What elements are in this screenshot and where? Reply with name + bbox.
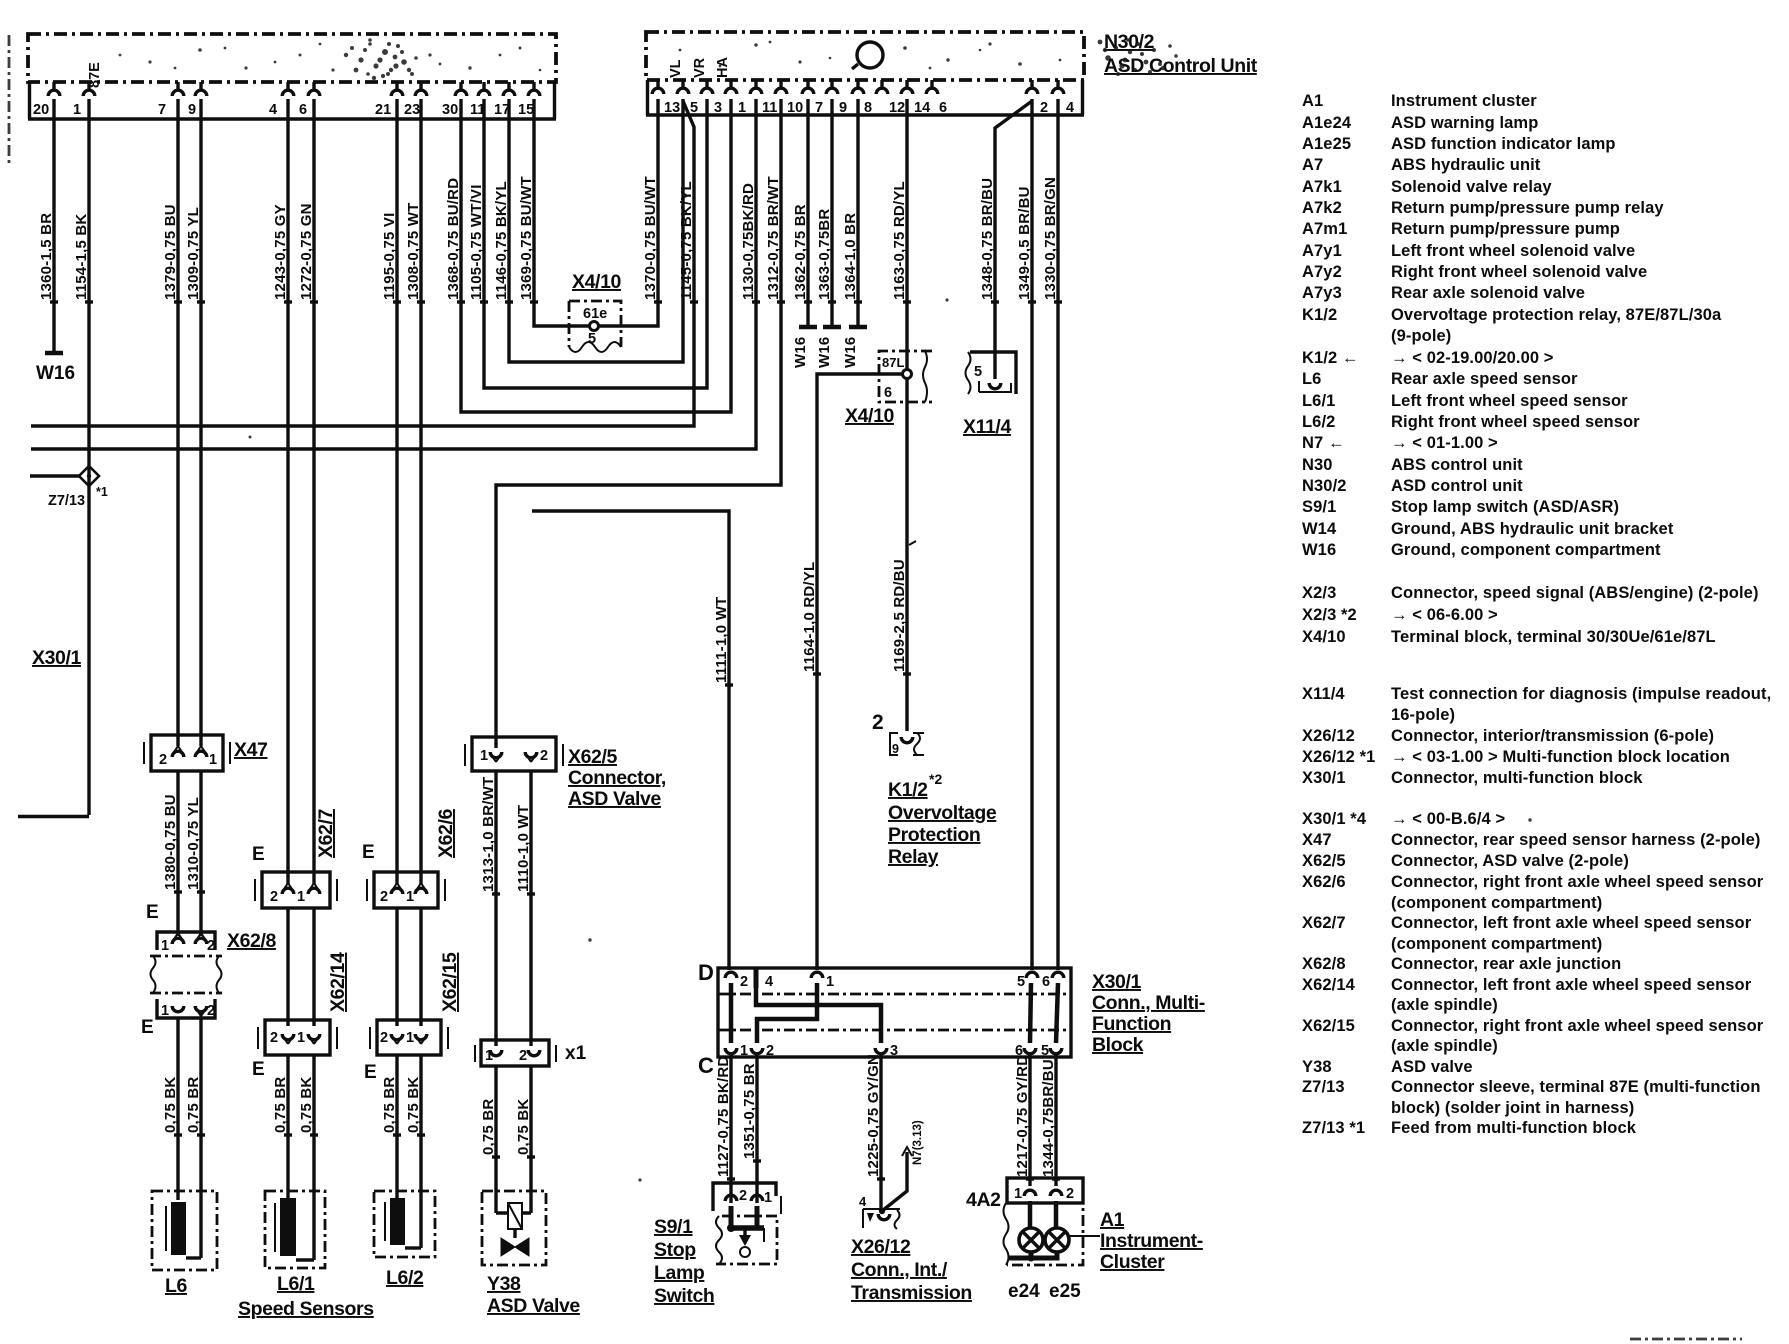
svg-text:Connector, left front axle whe: Connector, left front axle wheel speed s… xyxy=(1391,976,1752,994)
svg-text:0,75 BR: 0,75 BR xyxy=(272,1077,289,1133)
svg-text:ABS control unit: ABS control unit xyxy=(1391,456,1523,474)
wire 1348-0,75 BR/BU N30/2 pin2 to X11/4 xyxy=(979,101,1032,379)
connector x1 xyxy=(475,1040,587,1066)
ABS control unit N30 (top-left box) xyxy=(28,34,556,119)
wire 0,75 BK X62/15 to L6/2 xyxy=(405,1055,425,1248)
wire 1308-0,75 WT pin23 to X62/6 xyxy=(405,99,425,884)
svg-text:Connector, right front axle wh: Connector, right front axle wheel speed … xyxy=(1391,1017,1764,1035)
wire 1145-0,75 BK/YL N30/2 pin5 to multifunction bus xyxy=(31,101,698,426)
svg-text:N30/2: N30/2 xyxy=(1302,477,1347,495)
svg-text:4: 4 xyxy=(859,1194,867,1209)
svg-text:Left front wheel speed sensor: Left front wheel speed sensor xyxy=(1391,392,1628,410)
svg-text:Speed Sensors: Speed Sensors xyxy=(238,1298,374,1320)
wire 0,75 BR x1 to Y38 xyxy=(480,1066,500,1213)
svg-text:8: 8 xyxy=(864,100,872,116)
svg-text:2: 2 xyxy=(380,1030,388,1046)
svg-text:Instrument cluster: Instrument cluster xyxy=(1391,92,1537,110)
svg-text:1308-0,75 WT: 1308-0,75 WT xyxy=(405,203,422,300)
svg-text:1380-0,75 BU: 1380-0,75 BU xyxy=(162,794,179,890)
wire 1380-0,75 BU X47 to X62/8 xyxy=(162,771,182,936)
connector X26/12 xyxy=(859,1120,924,1229)
svg-text:2: 2 xyxy=(739,1188,747,1204)
svg-text:1360-1,5 BR: 1360-1,5 BR xyxy=(38,213,55,300)
speed sensor L6 xyxy=(152,1191,217,1297)
X26/12 labels xyxy=(851,1236,972,1304)
wire 0,75 BK X62/14 to L6/1 xyxy=(298,1055,318,1260)
svg-text:Z7/13: Z7/13 xyxy=(1302,1078,1345,1096)
svg-text:1145-0,75 BK/YL: 1145-0,75 BK/YL xyxy=(678,181,695,300)
wire 1154-1,5 BK pin1 down to multi-function block stub xyxy=(18,99,93,817)
svg-text:6: 6 xyxy=(884,385,892,401)
svg-text:ASD function indicator lamp: ASD function indicator lamp xyxy=(1391,135,1616,153)
solder sleeve Z7/13 xyxy=(30,466,108,509)
svg-text:Connector, left front axle whe: Connector, left front axle wheel speed s… xyxy=(1391,914,1752,932)
svg-text:(component compartment): (component compartment) xyxy=(1391,935,1602,953)
terminal block X4/10 (61e) xyxy=(569,271,622,352)
svg-text:K1/2 ←: K1/2 ← xyxy=(1302,349,1359,367)
svg-text:X62/7: X62/7 xyxy=(1302,914,1346,932)
N30 pin 23 xyxy=(404,82,427,118)
wire 1330-0,75 BR/GN N30/2 pin4 to X30/1 pin6 xyxy=(1042,99,1062,970)
svg-text:E: E xyxy=(146,902,159,923)
svg-text:0,75 BK: 0,75 BK xyxy=(162,1077,179,1133)
photocopy noise speckles xyxy=(119,38,1532,1181)
N30 pin 4 xyxy=(269,82,294,118)
svg-text:10: 10 xyxy=(787,100,803,116)
N30/2 pin 11 xyxy=(750,80,777,116)
svg-text:Connector, rear axle junction: Connector, rear axle junction xyxy=(1391,955,1621,973)
speed sensor L6/1 xyxy=(265,1191,325,1295)
svg-text:1: 1 xyxy=(297,889,305,905)
svg-text:1310-0,75 YL: 1310-0,75 YL xyxy=(185,797,202,890)
svg-text:(axle spindle): (axle spindle) xyxy=(1391,996,1498,1014)
svg-text:A1: A1 xyxy=(1302,92,1323,110)
N30/2 pin 1 xyxy=(725,80,746,116)
svg-text:(axle spindle): (axle spindle) xyxy=(1391,1037,1498,1055)
K1/2 labels xyxy=(888,771,997,868)
svg-text:N7(3.13): N7(3.13) xyxy=(912,1120,924,1165)
svg-text:1: 1 xyxy=(485,1048,493,1064)
svg-text:1313-1,0 BR/WT: 1313-1,0 BR/WT xyxy=(480,777,497,892)
svg-text:W16: W16 xyxy=(36,363,75,384)
wire 1364-1,0 BR N30/2 pin8 to ground W16 xyxy=(842,99,862,327)
svg-text:Stop lamp switch (ASD/ASR): Stop lamp switch (ASD/ASR) xyxy=(1391,498,1619,516)
svg-text:2: 2 xyxy=(766,1043,774,1059)
svg-text:X26/12: X26/12 xyxy=(1302,727,1355,745)
ASD function indicator lamp e25 xyxy=(1045,1228,1069,1252)
node label VL xyxy=(668,59,684,78)
N30/2 pin 5 xyxy=(677,80,698,116)
svg-text:X30/1 *4: X30/1 *4 xyxy=(1302,810,1367,828)
wire X62/6 to X62/15 (right) xyxy=(419,908,422,1026)
N30 pin 11 xyxy=(470,82,490,118)
svg-text:Return pump/pressure pump rela: Return pump/pressure pump relay xyxy=(1391,199,1664,217)
N30/2 pin 13 xyxy=(652,80,680,116)
svg-text:E: E xyxy=(252,844,265,865)
svg-text:K1/2: K1/2 xyxy=(888,779,928,801)
svg-text:12: 12 xyxy=(889,100,905,116)
svg-text:A7y1: A7y1 xyxy=(1302,242,1342,260)
svg-text:Connector, ASD valve (2-pole): Connector, ASD valve (2-pole) xyxy=(1391,852,1629,870)
N30 pin 17 xyxy=(494,82,515,118)
N30/2 pin 12 (unconnected) xyxy=(876,80,905,116)
terminal 87E rotated label xyxy=(87,62,103,88)
pointer line to A1 label xyxy=(1069,1235,1100,1237)
svg-text:2: 2 xyxy=(380,889,388,905)
wire 0,75 BR X62/14 to L6/1 xyxy=(272,1055,292,1198)
svg-text:Stop: Stop xyxy=(654,1239,696,1261)
svg-text:1312-0,75 BR/WT: 1312-0,75 BR/WT xyxy=(765,176,782,300)
svg-text:A7k2: A7k2 xyxy=(1302,199,1342,217)
svg-text:L6: L6 xyxy=(1302,370,1321,388)
A1 labels xyxy=(1100,1209,1203,1273)
wire 1309-0,75 YL pin9 to X47 xyxy=(185,99,205,746)
svg-text:0,75 BR: 0,75 BR xyxy=(185,1077,202,1133)
svg-text:Transmission: Transmission xyxy=(851,1282,972,1304)
N30 pin 6 xyxy=(299,82,320,118)
svg-text:2: 2 xyxy=(1040,100,1048,116)
svg-text:1349-0,5 BR/BU: 1349-0,5 BR/BU xyxy=(1016,186,1033,300)
svg-text:X2/3 *2: X2/3 *2 xyxy=(1302,606,1357,624)
svg-text:1: 1 xyxy=(1014,1186,1022,1202)
svg-text:0,75 BR: 0,75 BR xyxy=(480,1099,497,1155)
connector X62/6 xyxy=(367,808,457,908)
N30/2 pin 6 (unconnected) xyxy=(926,80,947,116)
svg-text:1370-0,75 BU/WT: 1370-0,75 BU/WT xyxy=(642,176,659,300)
svg-text:W16: W16 xyxy=(842,337,859,368)
wire 1272-0,75 GN pin6 to X62/7 xyxy=(298,99,318,884)
wire X62/7 to X62/14 (left) xyxy=(286,908,289,1026)
svg-text:1163-0,75 RD/YL: 1163-0,75 RD/YL xyxy=(891,181,908,300)
svg-text:Connector, rear speed sensor h: Connector, rear speed sensor harness (2-… xyxy=(1391,831,1760,849)
wire 1360-1,5 BR pin20 to ground W16 xyxy=(38,99,58,352)
X30/1 bottom pin 5 xyxy=(1041,1043,1062,1059)
N30/2 pin 3 xyxy=(701,80,722,116)
svg-text:5: 5 xyxy=(974,364,982,380)
svg-text:1: 1 xyxy=(161,1003,169,1019)
svg-text:1: 1 xyxy=(826,974,834,990)
svg-text:N30/2: N30/2 xyxy=(1104,31,1155,53)
svg-text:2: 2 xyxy=(270,889,278,905)
X30/1 bottom pin 2 xyxy=(751,1043,774,1059)
svg-text:1: 1 xyxy=(480,748,488,764)
svg-text:30: 30 xyxy=(442,102,458,118)
svg-text:N7 ←: N7 ← xyxy=(1302,434,1345,452)
svg-text:1: 1 xyxy=(406,889,414,905)
wire 1312-0,75 BR/WT N30/2 pin10 to X62/5 pin1 xyxy=(496,99,785,748)
X30/1 top pin 2 xyxy=(725,972,748,990)
svg-text:4: 4 xyxy=(1066,100,1074,116)
svg-text:0,75 BR: 0,75 BR xyxy=(381,1077,398,1133)
X30/1 top pin 6 xyxy=(1042,972,1064,990)
svg-text:16-pole): 16-pole) xyxy=(1391,706,1455,724)
svg-text:2: 2 xyxy=(519,1048,527,1064)
svg-text:1344-0,75BR/BU: 1344-0,75BR/BU xyxy=(1040,1059,1057,1177)
svg-text:X47: X47 xyxy=(234,739,268,761)
svg-text:X4/10: X4/10 xyxy=(572,271,622,293)
wire 1351-0,75 BR X30/1 to S9/1 xyxy=(741,1053,761,1203)
svg-text:X26/12: X26/12 xyxy=(851,1236,911,1258)
diagnosis connector X11/4 xyxy=(963,352,1016,438)
N30 pin 1 xyxy=(73,82,95,118)
svg-text:Solenoid valve relay: Solenoid valve relay xyxy=(1391,178,1552,196)
svg-text:5: 5 xyxy=(1017,974,1025,990)
svg-text:1: 1 xyxy=(740,1043,748,1059)
svg-text:X62/6: X62/6 xyxy=(435,808,457,858)
svg-text:1195-0,75 VI: 1195-0,75 VI xyxy=(381,213,398,300)
svg-text:Feed from multi-function block: Feed from multi-function block xyxy=(1391,1119,1637,1137)
connector X47 xyxy=(144,735,268,771)
N30/2 pin 10 xyxy=(775,80,803,116)
svg-text:15: 15 xyxy=(518,102,534,118)
svg-text:X62/14: X62/14 xyxy=(327,952,349,1012)
svg-text:20: 20 xyxy=(33,102,49,118)
svg-text:Connector sleeve, terminal 87E: Connector sleeve, terminal 87E (multi-fu… xyxy=(1391,1078,1761,1096)
svg-text:Lamp: Lamp xyxy=(654,1262,705,1284)
ignition symbol circle in N30/2 xyxy=(852,42,883,69)
svg-text:1243-0,75 GY: 1243-0,75 GY xyxy=(272,204,289,300)
svg-text:(9-pole): (9-pole) xyxy=(1391,327,1451,345)
overvoltage protection relay K1/2 connector xyxy=(872,711,924,756)
svg-text:X62/15: X62/15 xyxy=(1302,1017,1355,1035)
wire 1146-0,75 BK/YL pin17 to N30/2 pin5 xyxy=(493,99,683,362)
wire 1362-0,75 BR N30/2 pin7 to ground W16 xyxy=(792,99,812,327)
X30/1 bottom pin 6 xyxy=(1015,1043,1036,1059)
svg-text:Overvoltage protection relay,: Overvoltage protection relay, 87E/87L/30… xyxy=(1391,306,1722,324)
svg-text:ASD Valve: ASD Valve xyxy=(487,1295,580,1317)
instrument cluster connector row xyxy=(1007,1178,1083,1203)
instrument cluster A1 box xyxy=(1004,1203,1084,1265)
svg-text:Connector, right front axle wh: Connector, right front axle wheel speed … xyxy=(1391,873,1764,891)
connector X62/5 xyxy=(465,737,666,810)
svg-text:ASD valve: ASD valve xyxy=(1391,1058,1473,1076)
svg-text:X62/6: X62/6 xyxy=(1302,873,1346,891)
svg-text:2: 2 xyxy=(540,748,548,764)
svg-text:Z7/13: Z7/13 xyxy=(48,493,85,509)
svg-text:W16: W16 xyxy=(1302,541,1336,559)
svg-text:A1e24: A1e24 xyxy=(1302,114,1352,132)
wire 1379-0,75 BU pin7 to X47 xyxy=(162,99,182,746)
svg-text:A7k1: A7k1 xyxy=(1302,178,1342,196)
svg-text:3: 3 xyxy=(714,100,722,116)
X30/1 top pin 4 (stub) xyxy=(756,968,773,990)
node label VR xyxy=(692,57,708,78)
svg-text:VL: VL xyxy=(668,59,684,78)
svg-text:2: 2 xyxy=(1066,1186,1074,1202)
svg-text:E: E xyxy=(362,842,375,863)
svg-text:1363-0,75BR: 1363-0,75BR xyxy=(816,209,833,300)
X30/1 internal wire pin2-pin1 xyxy=(729,983,734,1043)
svg-text:Switch: Switch xyxy=(654,1285,714,1307)
svg-text:4: 4 xyxy=(765,974,773,990)
svg-text:1272-0,75 GN: 1272-0,75 GN xyxy=(298,203,315,300)
svg-text:0,75 BK: 0,75 BK xyxy=(298,1077,315,1133)
wire 1105-0,75 WT/VI pin11 to N30/2 pin3 xyxy=(468,99,707,388)
node X30/1 page reference xyxy=(32,647,82,669)
svg-text:14: 14 xyxy=(914,100,930,116)
N30 pin 20 xyxy=(33,82,60,118)
svg-text:X62/14: X62/14 xyxy=(1302,976,1356,994)
shield E (X62/8 top) xyxy=(146,902,159,923)
svg-text:L6/1: L6/1 xyxy=(1302,392,1335,410)
svg-text:Block: Block xyxy=(1092,1034,1144,1056)
svg-text:VR: VR xyxy=(692,57,708,78)
svg-text:1: 1 xyxy=(161,938,169,954)
svg-text:9: 9 xyxy=(839,100,847,116)
svg-text:X30/1: X30/1 xyxy=(1302,769,1346,787)
svg-text:A1: A1 xyxy=(1100,1209,1125,1231)
svg-text:X62/8: X62/8 xyxy=(1302,955,1346,973)
node label HA xyxy=(715,57,731,78)
cluster lamp common return wire xyxy=(1009,1252,1057,1262)
speed sensor L6/2 xyxy=(374,1191,435,1289)
shield E (X62/15 bottom) xyxy=(364,1062,377,1083)
svg-text:x1: x1 xyxy=(565,1043,587,1064)
ground W16 (pin9) xyxy=(816,327,841,368)
svg-text:1: 1 xyxy=(297,1030,305,1046)
svg-text:C: C xyxy=(698,1053,714,1078)
svg-text:→ < 01-1.00 >: → < 01-1.00 > xyxy=(1391,434,1498,452)
stop lamp switch S9/1 xyxy=(713,1183,781,1264)
N30 pin 7 xyxy=(158,82,184,118)
svg-text:→ < 00-B.6/4 >: → < 00-B.6/4 > xyxy=(1391,810,1505,828)
svg-text:1154-1,5 BK: 1154-1,5 BK xyxy=(73,214,90,300)
svg-text:0,75 BK: 0,75 BK xyxy=(405,1077,422,1133)
wire 1370-0,75 BU/WT N30/2 pin13 to X4/10 terminal 61e xyxy=(598,99,662,326)
svg-text:A7y3: A7y3 xyxy=(1302,284,1342,302)
N30/2 designation label xyxy=(1104,31,1258,77)
svg-text:X11/4: X11/4 xyxy=(963,416,1011,438)
svg-text:e24: e24 xyxy=(1008,1281,1040,1302)
svg-text:1351-0,75 BR: 1351-0,75 BR xyxy=(741,1063,758,1159)
svg-text:X11/4: X11/4 xyxy=(1302,685,1345,703)
X30/1 internal wire pin5-pin6 xyxy=(1030,983,1031,1043)
svg-text:W16: W16 xyxy=(816,337,833,368)
svg-text:D: D xyxy=(698,960,714,985)
svg-text:5: 5 xyxy=(1041,1043,1049,1059)
svg-text:X26/12 *1: X26/12 *1 xyxy=(1302,748,1375,766)
cluster wire to lamp e25 xyxy=(1054,1201,1059,1229)
svg-text:Rear axle speed sensor: Rear axle speed sensor xyxy=(1391,370,1578,388)
svg-text:21: 21 xyxy=(375,102,391,118)
svg-text:ASD warning lamp: ASD warning lamp xyxy=(1391,114,1538,132)
svg-text:5: 5 xyxy=(690,100,698,116)
svg-text:W16: W16 xyxy=(792,337,809,368)
wire 1195-0,75 VI pin21 to X62/6 xyxy=(381,99,401,884)
svg-text:1105-0,75 WT/VI: 1105-0,75 WT/VI xyxy=(468,184,485,300)
svg-text:A7y2: A7y2 xyxy=(1302,263,1342,281)
wire 1313-1,0 BR/WT X62/5 to x1 xyxy=(480,771,500,1046)
svg-text:Connector, speed signal (ABS/e: Connector, speed signal (ABS/engine) (2-… xyxy=(1391,584,1759,602)
svg-text:1225-0,75 GY/GN: 1225-0,75 GY/GN xyxy=(865,1054,882,1177)
svg-text:6: 6 xyxy=(939,100,947,116)
connector X62/15 xyxy=(370,952,461,1055)
svg-text:*2: *2 xyxy=(929,771,942,787)
svg-text:Y38: Y38 xyxy=(1302,1058,1332,1076)
svg-text:L6/2: L6/2 xyxy=(386,1267,424,1289)
svg-text:6: 6 xyxy=(299,102,307,118)
wire 1225-0,75 GY/GN X30/1 to X26/12 xyxy=(865,1053,885,1211)
svg-text:2: 2 xyxy=(872,711,884,734)
N30/2 pin 2 xyxy=(1026,80,1048,116)
X30/1 internal wire pin1-pin2 xyxy=(757,983,817,1043)
svg-text:→ < 02-19.00/20.00 >: → < 02-19.00/20.00 > xyxy=(1391,349,1554,367)
wire 1243-0,75 GY pin4 to X62/7 xyxy=(272,99,292,884)
cluster wire to lamp e24 xyxy=(1028,1201,1033,1229)
svg-text:1127-0,75 BK/RD: 1127-0,75 BK/RD xyxy=(715,1056,732,1177)
svg-text:3: 3 xyxy=(890,1043,898,1059)
svg-text:1369-0,75 BU/WT: 1369-0,75 BU/WT xyxy=(518,176,535,300)
svg-text:1169-2,5 RD/BU: 1169-2,5 RD/BU xyxy=(891,559,908,672)
N30/2 pin 14 xyxy=(901,80,930,116)
svg-text:1: 1 xyxy=(73,102,81,118)
connector multi-function block X30/1 xyxy=(698,960,1071,1078)
X30/1 internal wire pin4-pin3 xyxy=(756,988,881,1043)
svg-text:2: 2 xyxy=(270,1030,278,1046)
svg-text:7: 7 xyxy=(158,102,166,118)
ground W16 (left) xyxy=(36,353,75,384)
svg-text:1330-0,75 BR/GN: 1330-0,75 BR/GN xyxy=(1042,177,1059,300)
N30/2 pin 7 xyxy=(802,80,823,116)
svg-text:A7: A7 xyxy=(1302,156,1323,174)
wire 0,75 BR X62/15 to L6/2 xyxy=(381,1055,401,1200)
svg-text:A1e25: A1e25 xyxy=(1302,135,1351,153)
svg-text:N30: N30 xyxy=(1302,456,1333,474)
svg-text:E: E xyxy=(252,1059,265,1080)
svg-text:X30/1: X30/1 xyxy=(32,647,82,669)
svg-text:K1/2: K1/2 xyxy=(1302,306,1337,324)
connector 4A2 label xyxy=(966,1189,1001,1211)
svg-text:Left front wheel solenoid valv: Left front wheel solenoid valve xyxy=(1391,242,1635,260)
svg-text:1: 1 xyxy=(209,752,217,768)
svg-text:1: 1 xyxy=(406,1030,414,1046)
svg-text:X47: X47 xyxy=(1302,831,1332,849)
svg-text:1217-0,75 GY/RD: 1217-0,75 GY/RD xyxy=(1014,1055,1031,1177)
svg-text:Relay: Relay xyxy=(888,846,939,868)
svg-text:S9/1: S9/1 xyxy=(1302,498,1336,516)
svg-text:11: 11 xyxy=(762,100,777,116)
ASD valve Y38 xyxy=(482,1191,580,1317)
X30/1 internal wire pin6-pin5 xyxy=(1056,983,1058,1043)
svg-text:Connector, multi-function bloc: Connector, multi-function block xyxy=(1391,769,1643,787)
svg-text:*1: *1 xyxy=(96,485,108,499)
N30 pin 9 xyxy=(188,82,207,118)
ground W16 (pin8) xyxy=(842,327,867,368)
wire 1217-0,75 GY/RD X30/1 to instrument cluster xyxy=(1014,1053,1034,1186)
X30/1 top pin 1 xyxy=(811,972,834,990)
svg-text:Ground, component compartment: Ground, component compartment xyxy=(1391,541,1661,559)
svg-text:L6/2: L6/2 xyxy=(1302,413,1335,431)
svg-text:ABS hydraulic unit: ABS hydraulic unit xyxy=(1391,156,1541,174)
svg-text:5: 5 xyxy=(588,331,596,347)
svg-text:X62/8: X62/8 xyxy=(227,930,277,952)
svg-text:2: 2 xyxy=(207,1003,215,1019)
wire 1349-0,5 BR/BU N30/2 pin2 to X30/1 pin5 xyxy=(1016,99,1036,970)
wire 1127-0,75 BK/RD X30/1 to S9/1 xyxy=(715,1053,735,1203)
svg-text:1364-1,0 BR: 1364-1,0 BR xyxy=(842,213,859,300)
svg-text:Y38: Y38 xyxy=(487,1273,521,1295)
wire 1368-0,75 BU/RD pin30 to N30/2 pin1 xyxy=(445,99,731,412)
ground W16 (pin7) xyxy=(792,327,817,368)
svg-text:Function: Function xyxy=(1092,1013,1171,1035)
svg-text:87L: 87L xyxy=(882,355,904,370)
svg-text:e25: e25 xyxy=(1049,1281,1081,1302)
svg-text:Rear axle solenoid valve: Rear axle solenoid valve xyxy=(1391,284,1585,302)
shield E (X62/8 bottom) xyxy=(141,1017,154,1038)
svg-text:0,75 BK: 0,75 BK xyxy=(515,1099,532,1155)
connector X62/7 xyxy=(255,809,337,908)
wire X62/7 to X62/14 (right) xyxy=(312,908,315,1026)
